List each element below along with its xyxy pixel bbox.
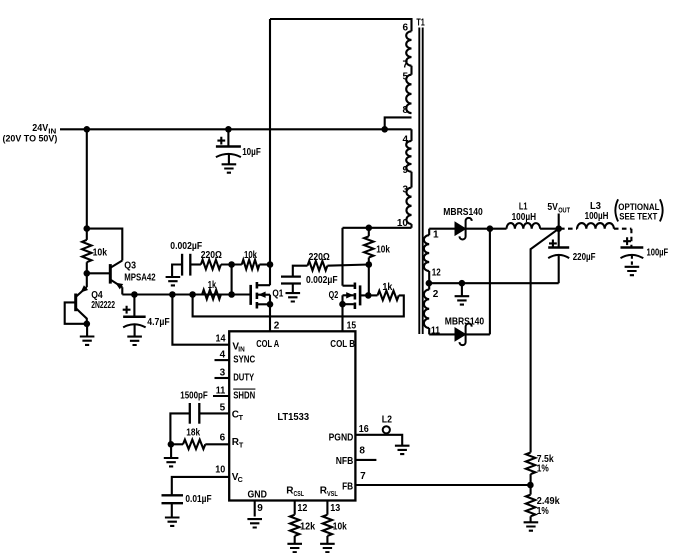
node Q4 emitter-ground junction [84, 321, 91, 328]
wire dashed 5VOUT to L3 [560, 228, 577, 230]
diode D1 MBRS140 [455, 222, 466, 235]
wire Q3 collector feed [87, 229, 123, 261]
svg-text:220µF: 220µF [573, 252, 596, 263]
wire snubber B down to gate node [368, 265, 370, 296]
capacitor C-0.002uF snubber B [293, 266, 308, 277]
transformer T1 winding 5-8 [406, 75, 411, 113]
svg-text:(20V TO 50V): (20V TO 50V) [3, 133, 58, 143]
inductor L1 100uH [490, 228, 507, 230]
node Q2 gate junction [365, 292, 372, 299]
wire center tap into pin4 [410, 129, 412, 141]
node bias crossover takeoff [189, 291, 196, 298]
transformer T1 winding 3-10 [406, 188, 411, 225]
mosfet Q2 N-channel [359, 285, 362, 305]
transformer T1 winding 6-7 [406, 31, 411, 65]
svg-text:18k: 18k [186, 428, 200, 439]
svg-text:16: 16 [359, 424, 369, 435]
ground center tap [455, 283, 470, 304]
wire secondary stub tap-2 [428, 283, 430, 289]
node rectifier output [487, 225, 494, 232]
svg-text:0.01µF: 0.01µF [185, 494, 211, 505]
transformer T1 core [418, 28, 420, 335]
node snubber A mid [228, 261, 235, 268]
svg-text:T1: T1 [416, 17, 425, 28]
resistor R-220 snubber B [308, 261, 328, 270]
svg-text:100µH: 100µH [585, 211, 609, 222]
svg-text:14: 14 [216, 334, 226, 345]
ground under 10uF [222, 155, 237, 173]
svg-text:L1: L1 [519, 202, 528, 213]
svg-text:4.7µF: 4.7µF [147, 317, 169, 328]
resistor R-18k [183, 440, 205, 449]
node snubber B mid [366, 261, 373, 268]
wire Q2 drain rail [343, 224, 412, 228]
ground PGND [395, 446, 410, 454]
svg-text:DUTY: DUTY [233, 372, 254, 383]
wire pin11 to diode2 [429, 333, 455, 335]
wire Q2 gate wire [361, 294, 368, 296]
svg-text:VSL: VSL [327, 489, 338, 498]
svg-text:3: 3 [220, 368, 226, 379]
node 24V-10uF junction [225, 126, 232, 133]
svg-text:IN: IN [238, 345, 244, 354]
node tap ground junction [459, 280, 466, 287]
svg-text:2: 2 [433, 289, 439, 300]
resistor R-10k snubber B [368, 228, 370, 237]
ground snubber A [166, 277, 181, 285]
svg-text:COL B: COL B [330, 339, 355, 350]
svg-text:1500pF: 1500pF [180, 391, 208, 402]
svg-text:1%: 1% [537, 464, 549, 475]
resistor R-7.5k [526, 453, 535, 475]
wire bias to VIN pin14 [172, 295, 229, 345]
pin 4 stub [215, 359, 230, 361]
node Q1 source junction [267, 301, 274, 308]
capacitor C-100uF optional [621, 246, 644, 249]
inductor L2 bead [383, 426, 390, 433]
svg-text:NFB: NFB [336, 456, 354, 467]
pin 11 stub [213, 395, 229, 397]
svg-text:Q2: Q2 [329, 290, 339, 301]
node FB divider [527, 482, 534, 489]
wire FB to divider [355, 484, 530, 486]
wire Q2 drain vertical [341, 228, 343, 286]
wire snubber A to drain [259, 263, 270, 265]
svg-text:Q3: Q3 [124, 261, 136, 272]
node Q3 base junction [84, 270, 91, 277]
diode D2 MBRS140 [455, 328, 466, 341]
ground pin9 [247, 519, 262, 527]
svg-text:LT1533: LT1533 [277, 412, 309, 423]
ground under 10k RVSL [320, 544, 335, 552]
svg-text:12: 12 [297, 503, 307, 514]
wire FB sense diagonal [531, 229, 559, 453]
svg-text:1%: 1% [537, 506, 549, 517]
resistor R-1k Q2 gate [378, 291, 399, 300]
wire center tap return [429, 282, 559, 284]
inductor L3 100uH optional [577, 223, 614, 229]
resistor R-10k bias upper [86, 229, 88, 240]
capacitor C-0.002uF snubber A [181, 254, 183, 276]
svg-text:C: C [238, 475, 243, 484]
wire pin8 tap jog [385, 117, 412, 129]
svg-text:7: 7 [360, 471, 366, 482]
svg-text:Q1: Q1 [272, 289, 283, 300]
ground under 12k [287, 544, 302, 552]
wire pin1 to diode [429, 228, 455, 230]
resistor R-1k Q1 gate [202, 290, 221, 299]
capacitor C-220uF output [558, 229, 560, 248]
svg-text:12: 12 [432, 267, 441, 278]
ground under 100uF [625, 267, 640, 275]
svg-text:10: 10 [215, 465, 225, 476]
wire bias crossover to Q2 side [193, 295, 404, 317]
svg-text:10k: 10k [376, 244, 390, 255]
svg-text:10k: 10k [333, 522, 347, 533]
wire VC pin [172, 477, 229, 495]
svg-text:13: 13 [330, 503, 340, 514]
ground CT-RT [164, 444, 179, 466]
node 5VOUT [555, 225, 562, 232]
wire snubber B mid link [327, 265, 368, 266]
svg-text:100µF: 100µF [647, 248, 669, 259]
node Q1 drain-snubber junction [267, 261, 274, 268]
transistor Q3 MPSA42 NPN [87, 272, 110, 274]
svg-text:FB: FB [342, 482, 353, 493]
svg-text:SYNC: SYNC [233, 355, 255, 366]
node bias-4.7uF junction [131, 291, 138, 298]
svg-text:0.002µF: 0.002µF [170, 241, 202, 252]
op-amp U1 LT1533 body [229, 331, 355, 500]
transistor Q4 2N2222 diode-connected [86, 273, 88, 287]
resistor R-12k [290, 515, 299, 536]
capacitor C-0.01uF [162, 494, 184, 496]
wire Q1 source to COL A [269, 295, 271, 332]
svg-text:9: 9 [257, 503, 263, 514]
transformer T1 winding 4-9 [406, 141, 411, 172]
svg-text:220Ω: 220Ω [309, 252, 330, 263]
svg-text:T: T [239, 413, 244, 422]
wire dashed L3 to cap [614, 228, 632, 230]
wire PGND pin16 [355, 435, 402, 446]
svg-text:100µH: 100µH [512, 212, 536, 223]
resistor R-10k snubber A [242, 260, 260, 269]
svg-text:OUT: OUT [558, 205, 570, 214]
wire NFB stub [355, 459, 376, 461]
pin 13 stub [326, 501, 328, 515]
svg-text:12k: 12k [300, 522, 315, 533]
wire diode2 to node [466, 333, 490, 335]
svg-text:CSL: CSL [294, 489, 305, 498]
resistor R-10k RVSL [323, 515, 332, 536]
wire top rail to T1 pin 6 [270, 19, 412, 31]
node 24V-10k junction [84, 126, 91, 133]
svg-text:SEE TEXT: SEE TEXT [619, 212, 657, 223]
wire gate bias rail [122, 293, 250, 295]
svg-text:7: 7 [402, 59, 408, 70]
svg-text:MBRS140: MBRS140 [445, 317, 485, 328]
wire stub pin9-pin3 [410, 172, 412, 188]
wire stub pin7-pin5 [410, 66, 412, 75]
svg-text:MBRS140: MBRS140 [443, 207, 483, 218]
pin 9 GND stub [254, 501, 256, 517]
node secondary center tap [426, 280, 433, 287]
svg-text:2: 2 [274, 320, 280, 331]
svg-text:11: 11 [216, 386, 226, 397]
pin 12 stub [294, 501, 296, 515]
svg-text:9: 9 [402, 165, 408, 176]
svg-text:1k: 1k [382, 282, 392, 293]
node Q1 gate-snubber junction [228, 291, 235, 298]
svg-text:10µF: 10µF [242, 147, 261, 158]
node bias-VIN junction [169, 291, 176, 298]
ground under Q4 [80, 324, 95, 345]
ground under 0.01uF [165, 518, 180, 526]
svg-text:10k: 10k [93, 248, 108, 259]
node Q2 source junction [339, 301, 346, 308]
svg-text:10k: 10k [244, 250, 257, 261]
wire secondary stub 12-tap [428, 271, 430, 283]
mosfet Q1 N-channel [249, 285, 252, 305]
node CT-RT junction [168, 441, 175, 448]
svg-text:MPSA42: MPSA42 [124, 272, 156, 283]
wire Q1 drain vertical [269, 19, 271, 285]
wire T1 pin11 stub [428, 328, 430, 334]
wire snubber A mid [221, 263, 242, 265]
wire 24V down to Q3 branch [86, 129, 88, 228]
node 24V center-tap junction [381, 126, 388, 133]
svg-text:PGND: PGND [329, 433, 354, 444]
svg-text:4: 4 [220, 350, 226, 361]
svg-text:15: 15 [347, 320, 357, 331]
svg-text:8: 8 [402, 105, 408, 116]
svg-text:SHDN: SHDN [233, 390, 255, 401]
svg-text:1: 1 [433, 229, 439, 240]
capacitor C-4.7uF bias bypass [133, 295, 135, 317]
wire 24V input rail [60, 128, 412, 130]
ground snubber B [286, 293, 301, 301]
svg-text:0.002µF: 0.002µF [306, 275, 338, 286]
wire rectifier node down [489, 229, 491, 335]
svg-text:8: 8 [359, 446, 365, 457]
svg-text:1k: 1k [208, 280, 217, 291]
svg-text:T: T [239, 440, 244, 449]
svg-text:5: 5 [220, 403, 226, 414]
svg-text:2N2222: 2N2222 [91, 300, 115, 311]
transformer T1 winding 2-11 [424, 290, 429, 328]
resistor R-2.49k [530, 485, 532, 495]
node Q3 collector tee [84, 225, 91, 232]
svg-text:L2: L2 [382, 414, 393, 425]
wire Q2 source to COL B [341, 295, 343, 331]
wire 5VOUT stub [558, 214, 560, 229]
wire snubber A mid down to gate [231, 265, 233, 295]
svg-text:COL A: COL A [256, 339, 279, 350]
svg-text:GND: GND [248, 490, 267, 501]
svg-text:6: 6 [402, 23, 408, 34]
ground FB divider [524, 522, 539, 530]
node Q2 rail 10k junction [366, 225, 373, 232]
svg-text:5V: 5V [547, 202, 558, 213]
svg-text:220Ω: 220Ω [201, 250, 222, 261]
transformer T1 winding 1-12 [424, 235, 429, 271]
capacitor C-10uF 10µF input bypass [216, 145, 241, 148]
capacitor C-1500pF [199, 412, 229, 414]
ground under 4.7uF [127, 325, 142, 345]
svg-text:6: 6 [220, 433, 226, 444]
resistor R-220 snubber A [201, 260, 221, 269]
wire diode1 to node [466, 228, 490, 230]
pin 3 stub [215, 377, 230, 379]
wire T1 pin1 stub [428, 229, 430, 236]
